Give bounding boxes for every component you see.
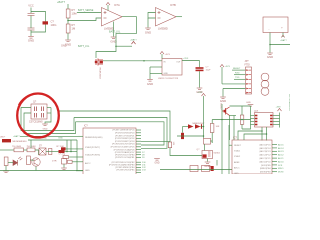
wire bottom rail left <box>0 170 33 172</box>
wire route line 1 lower <box>170 148 202 156</box>
wire drop A <box>66 140 68 152</box>
supply symbol +3V3 above IC3 <box>278 109 282 112</box>
svg-text:TXD: TXD <box>235 77 240 79</box>
wire IC4 gnd pin wire <box>76 170 83 172</box>
diode D1 MBR0520 <box>188 124 194 129</box>
resistor R9 vertical <box>168 142 171 148</box>
wire IC2 gnd drop <box>149 67 151 79</box>
svg-text:(PCINT20/XCK/T0)PD4: (PCINT20/XCK/T0)PD4 <box>112 144 135 146</box>
wire IC1B to gnd <box>147 18 149 28</box>
IC5 left pin names <box>234 145 242 175</box>
svg-text:CSTCE16M0: CSTCE16M0 <box>29 121 43 123</box>
wire switch row wire2 <box>65 151 78 153</box>
wire Q4 collector wire <box>230 105 251 107</box>
JP1 pin 2 <box>246 74 248 76</box>
svg-text:LM1117-3.3/SOT223: LM1117-3.3/SOT223 <box>158 78 179 80</box>
svg-text:GND: GND <box>164 73 169 75</box>
svg-text:GND: GND <box>61 44 67 47</box>
svg-text:IC?A: IC?A <box>114 3 120 7</box>
resistor R10 <box>240 115 244 124</box>
wire Q2 inner link <box>204 144 206 150</box>
MCU IC5 body <box>232 140 272 174</box>
wire switch row wire <box>46 151 59 153</box>
svg-text:DTR: DTR <box>52 161 57 163</box>
wire Y1 right pin wire <box>47 107 51 109</box>
IC5 right pin labels <box>278 143 284 177</box>
svg-text:GND: GND <box>28 39 34 43</box>
junction IC3 dot A <box>261 130 263 132</box>
svg-text:(MISO)PB4: (MISO)PB4 <box>260 168 271 170</box>
svg-text:GND: GND <box>85 170 90 172</box>
svg-text:100n: 100n <box>51 23 57 27</box>
switch S1 body <box>39 148 46 155</box>
svg-text:GND: GND <box>234 173 239 174</box>
wire right col drop <box>76 140 78 171</box>
wire drop B <box>70 140 72 152</box>
connector JP1 FTDI <box>246 67 252 94</box>
svg-text:GND: GND <box>43 128 48 130</box>
svg-text:+BATT: +BATT <box>130 38 137 41</box>
wire Q3 emitter drop <box>35 167 37 171</box>
svg-text:R?: R? <box>72 8 76 12</box>
svg-text:ADC4: ADC4 <box>278 147 284 150</box>
IC4 right pin stubs <box>136 130 141 173</box>
ground GND under C5 <box>61 168 67 170</box>
svg-text:AVCC: AVCC <box>234 166 240 169</box>
svg-text:GND: GND <box>154 163 159 165</box>
capacitor C5 <box>62 159 67 165</box>
capacitor C3 <box>196 67 204 69</box>
svg-text:XTAL2(PCINT7): XTAL2(PCINT7) <box>85 146 100 149</box>
svg-text:(ADC2)PC2: (ADC2)PC2 <box>260 154 272 157</box>
wire IC4 reset pin wire <box>78 135 83 137</box>
ground GND under Q2 <box>205 162 211 164</box>
resistor R3 <box>14 148 24 152</box>
svg-text:(PCINT17/TXD)PD1: (PCINT17/TXD)PD1 <box>115 135 135 137</box>
wire IC2 left stub2 <box>150 66 162 68</box>
wire divider mid wire <box>67 18 69 24</box>
svg-text:(ADC4)PC4: (ADC4)PC4 <box>260 147 272 150</box>
junction reg input tap <box>143 60 145 62</box>
svg-text:RXD: RXD <box>235 73 240 75</box>
J2 mark <box>211 166 214 171</box>
capacitor C2 body <box>43 21 49 24</box>
transistor Q4 <box>222 107 230 116</box>
wire C7 to avcc pin <box>72 161 83 163</box>
svg-text:+3V3: +3V3 <box>276 107 282 109</box>
fuse F1 body <box>2 139 11 142</box>
svg-text:(PCINT1/OC1A)PB1: (PCINT1/OC1A)PB1 <box>115 156 135 159</box>
svg-text:R?: R? <box>72 23 76 27</box>
wire Y1 gnd drop <box>45 108 51 124</box>
resistor R1 <box>66 9 70 18</box>
wire route line 2 <box>74 118 167 149</box>
wire diode feed <box>183 126 189 128</box>
svg-text:BC847: BC847 <box>220 104 222 111</box>
ground GND under IC2 <box>147 80 153 82</box>
supply symbol +BATT arrow <box>132 42 136 45</box>
wire bottom rail right <box>160 169 232 171</box>
wire Q3 base wire <box>31 159 35 161</box>
wire R10 bottom leg <box>241 124 243 129</box>
wire route line 1 branch <box>141 141 170 143</box>
svg-text:(ADC5)PC5: (ADC5)PC5 <box>260 143 272 146</box>
svg-text:IC?: IC? <box>233 136 238 139</box>
wire left long rail 222 <box>221 104 223 174</box>
IC3 right pin stubs <box>273 116 280 125</box>
svg-text:SCK: SCK <box>278 165 283 167</box>
wire led anode drop <box>8 162 13 164</box>
resonator Y1 plates <box>35 107 44 118</box>
svg-text:(PCINT23/AIN1)PD7: (PCINT23/AIN1)PD7 <box>115 151 136 154</box>
wire IC2 left stub3 <box>150 73 162 75</box>
svg-text:LED?: LED? <box>0 136 6 138</box>
junction row dot A <box>66 151 68 153</box>
wire FTDI GND wire <box>223 88 246 90</box>
ground GND under IC1A <box>111 37 117 39</box>
capacitor C4 <box>49 149 52 155</box>
IC5 right pin names <box>260 143 272 177</box>
supply symbol VCC arrow above IC2 <box>160 52 164 55</box>
svg-text:(PCINT3/OC2A/MOSI)PB3: (PCINT3/OC2A/MOSI)PB3 <box>109 164 135 167</box>
JP1 pin 6 <box>246 92 248 94</box>
svg-text:GND: GND <box>147 82 153 86</box>
ground GND under IC1B <box>145 28 151 30</box>
IC3 pin pads <box>255 115 273 126</box>
junction divider tap <box>67 20 69 22</box>
ground GND under C3 <box>197 88 203 90</box>
hole H1 <box>261 73 269 81</box>
hole H2 <box>261 80 269 88</box>
wire IC3 left pins rail <box>242 106 251 129</box>
svg-text:+BATT: +BATT <box>280 39 287 42</box>
supply symbol +3V3 arrow at JP1 <box>220 65 224 68</box>
wire C1 bottom leg <box>30 30 32 36</box>
wire R8 bottom leg <box>211 133 213 144</box>
wire FTDI RXD wire <box>234 74 246 76</box>
svg-text:MF-MSMF050: MF-MSMF050 <box>13 141 28 143</box>
LED D2 <box>13 157 22 166</box>
switch S1 cross <box>39 148 46 155</box>
svg-text:RESERVED(GND): RESERVED(GND) <box>85 137 103 139</box>
JP1 pin 5 <box>246 88 248 90</box>
svg-text:(SCK)PB5: (SCK)PB5 <box>261 165 271 167</box>
wire bottom rail mid <box>33 170 83 172</box>
junction row dot B <box>70 151 72 153</box>
wire Q2 drain link <box>211 141 213 143</box>
wire FTDI RESET wire <box>232 69 246 71</box>
wire C1 left leg <box>30 16 32 29</box>
wire IC1B tied inputs <box>148 13 156 19</box>
junction mid cross dot <box>203 135 205 137</box>
Q2 lower body <box>202 151 213 159</box>
svg-text:VCC: VCC <box>28 4 34 8</box>
svg-text:+3V3: +3V3 <box>197 92 203 94</box>
connector J2a <box>190 166 198 172</box>
svg-text:10uF: 10uF <box>206 70 212 72</box>
svg-text:(PCINT14/RESET)PC6: (PCINT14/RESET)PC6 <box>112 130 135 132</box>
wire IC2 top stub <box>161 54 163 59</box>
wire IC3 bottom pin A <box>261 127 263 141</box>
wire FTDI GND drop <box>222 89 224 97</box>
resistor R5 <box>4 157 8 166</box>
transistor Q1 <box>96 59 103 66</box>
svg-text:IC?B: IC?B <box>170 3 176 7</box>
wire IC5 left pin wire <box>229 144 232 146</box>
wire C3 top leg <box>199 61 201 68</box>
svg-text:BATT_LVL: BATT_LVL <box>109 30 121 33</box>
capacitor C6 body <box>61 147 66 150</box>
svg-text:+3V3: +3V3 <box>165 54 171 56</box>
svg-text:XTAL1: XTAL1 <box>234 150 241 153</box>
wire vertical rail 203 <box>203 96 205 138</box>
wire R8 top leg <box>211 120 213 124</box>
wire divider bottom wire <box>67 33 69 40</box>
resistor R8 <box>210 124 214 133</box>
wire IC3 bottom pin B <box>266 127 268 141</box>
svg-text:(ADC0)PC0: (ADC0)PC0 <box>260 160 272 163</box>
svg-text:ADC2: ADC2 <box>278 154 284 157</box>
wire Y1 pin2 route <box>24 113 76 134</box>
ground GND under divider <box>65 40 71 42</box>
voltage regulator IC2 <box>162 59 182 76</box>
junction gnd rail tap <box>269 44 271 46</box>
annotation circle highlight <box>17 94 59 138</box>
wire C3 bottom leg <box>199 71 201 87</box>
ground GND bottom-left <box>3 171 9 173</box>
svg-text:I2C BREAKOUT: I2C BREAKOUT <box>288 94 290 112</box>
svg-text:AREF: AREF <box>234 161 240 164</box>
wire C1 parallel loop <box>31 12 46 33</box>
wire led rail 2 <box>24 149 28 151</box>
wire route line 1 <box>58 111 171 142</box>
junction rail 222 dot <box>221 119 223 121</box>
svg-text:RESET: RESET <box>234 145 242 147</box>
wire C6 to xtal2 pin <box>66 148 83 150</box>
svg-text:MOSI: MOSI <box>278 172 284 174</box>
svg-text:XTAL2: XTAL2 <box>234 155 241 158</box>
IC4 right pin names <box>109 130 135 172</box>
junction IC3 dot B <box>266 133 268 135</box>
svg-text:1M: 1M <box>72 26 76 30</box>
svg-text:10K: 10K <box>216 126 220 128</box>
svg-text:BATT_SENSE: BATT_SENSE <box>78 9 94 12</box>
junction pullup rail dot <box>241 119 243 121</box>
svg-text:750 OHM: 750 OHM <box>12 146 21 148</box>
resistor R4 <box>27 148 35 152</box>
wire X1 plus pin stub <box>282 33 284 38</box>
wire IC3 right rail <box>279 113 281 128</box>
svg-text:+3V3: +3V3 <box>183 58 189 60</box>
wire Y1 pin1 route <box>21 108 74 131</box>
wire IC1B output stub <box>176 16 182 18</box>
svg-text:(PCINT19/INT1)PD3: (PCINT19/INT1)PD3 <box>115 141 135 143</box>
JP1 pin 3 <box>246 78 248 80</box>
ground GND in circle <box>42 124 48 126</box>
wire IC1A V- stub <box>113 22 115 37</box>
wire IC3 to IC5 drop A <box>238 131 262 140</box>
wire FTDI VCC wire <box>222 83 246 85</box>
JP1 pin 4 <box>246 83 248 85</box>
battery connector X1 <box>263 17 288 33</box>
wire X1 minus pin to gnd <box>269 33 271 53</box>
svg-text:LM358D: LM358D <box>158 27 168 31</box>
wire J2 drop <box>216 160 218 166</box>
ground GND under X1 <box>267 53 273 55</box>
svg-text:+BATT: +BATT <box>13 135 20 138</box>
svg-text:(PCINT5/SCK)PB5: (PCINT5/SCK)PB5 <box>116 170 135 172</box>
wire Q1 to regulator <box>103 60 162 62</box>
wire reset pullup rail <box>212 119 250 121</box>
wire R10 top leg <box>241 106 243 115</box>
wire R5 bottom <box>5 166 7 171</box>
svg-text:(PCINT21/OC0B/T1)PD5: (PCINT21/OC0B/T1)PD5 <box>111 147 136 149</box>
wire ref to opamp plus <box>77 12 101 14</box>
IC3 left pin stubs <box>251 116 255 125</box>
wire tap to opamp minus <box>68 18 101 21</box>
op-amp IC1B <box>156 8 177 27</box>
svg-text:AVCC: AVCC <box>85 162 91 165</box>
svg-text:BATT_LVL: BATT_LVL <box>78 45 90 48</box>
transistor Q3 <box>32 158 40 166</box>
capacitor C1 <box>28 14 35 31</box>
svg-text:-: - <box>269 27 270 31</box>
supply symbol V+ of IC1A <box>106 3 110 6</box>
ground GND under C1 <box>28 37 34 39</box>
svg-text:(ADC3)PC3: (ADC3)PC3 <box>260 150 272 153</box>
svg-text:(MOSI)PB3: (MOSI)PB3 <box>260 172 271 174</box>
svg-text:10M: 10M <box>72 11 77 15</box>
svg-text:GND: GND <box>58 138 63 140</box>
resistor R11 <box>63 156 69 159</box>
svg-text:ADC3: ADC3 <box>278 150 284 153</box>
wire IC3 to IC5 drop B <box>244 134 267 140</box>
resistor R6 <box>27 156 31 165</box>
svg-text:GND: GND <box>246 102 251 104</box>
wire R4 top drop <box>30 140 32 148</box>
svg-text:(PCINT18/INT0)PD2: (PCINT18/INT0)PD2 <box>115 138 135 140</box>
svg-text:ADC0: ADC0 <box>278 160 284 163</box>
wire IC4 reset run <box>20 135 78 137</box>
svg-text:FTDI: FTDI <box>245 64 251 67</box>
connector J2b <box>202 166 210 172</box>
resistor R7 body <box>59 150 65 153</box>
svg-text:IRLML6402: IRLML6402 <box>99 68 101 80</box>
svg-text:+BATT: +BATT <box>57 0 65 4</box>
wire Q4 drop A <box>229 116 231 141</box>
resistor R2 <box>66 24 70 33</box>
wire +BATT spur <box>116 45 132 47</box>
wire IC1A V+ stub <box>107 5 109 11</box>
wire Q2 source to gnd <box>207 159 209 162</box>
svg-text:ADC1: ADC1 <box>278 157 284 160</box>
svg-text:SI2302: SI2302 <box>214 153 221 155</box>
junction BATT_LVL / +BATT tap <box>115 45 117 47</box>
wire +3V3 arrow drop <box>221 67 223 84</box>
wire FTDI TXD wire <box>234 78 246 80</box>
wire IC5 left rail <box>228 125 230 174</box>
wire led rail <box>0 149 14 151</box>
supply symbol +3V3 arrow rail <box>202 94 206 97</box>
IC3 body <box>255 113 274 128</box>
resonator Y1 body <box>31 104 47 119</box>
IC4 left pin names <box>85 137 103 172</box>
ground GND sym near IC4 <box>154 159 160 161</box>
wire 3V3 output <box>182 60 200 62</box>
svg-text:(ADC1)PC1: (ADC1)PC1 <box>260 157 272 160</box>
ground GND above IC3 <box>248 105 254 107</box>
svg-text:XTAL1(PCINT6): XTAL1(PCINT6) <box>85 154 100 157</box>
svg-text:RESET: RESET <box>233 68 241 70</box>
IC5 right pin stubs <box>272 145 277 176</box>
svg-text:+3V3: +3V3 <box>225 66 231 68</box>
wire Q4 drop B <box>233 116 235 141</box>
svg-text:C? 22p: C? 22p <box>59 154 66 156</box>
wire divider top wire <box>67 4 69 9</box>
svg-text:(PCINT16/RXD)PD0: (PCINT16/RXD)PD0 <box>115 133 135 135</box>
MCU IC4 body <box>83 128 136 175</box>
wire gnd rail mid <box>28 139 77 141</box>
svg-text:GND: GND <box>220 99 226 103</box>
svg-text:GND: GND <box>267 55 273 59</box>
wire C5 gnd drop <box>63 164 65 168</box>
wire route line 3 <box>76 122 165 145</box>
wire BATT_LVL net <box>96 17 137 58</box>
svg-text:MISO: MISO <box>278 168 284 170</box>
wire VCC stub to C1 <box>30 8 32 14</box>
wire diode feed corner <box>182 127 184 133</box>
Q2 upper body <box>204 138 211 144</box>
svg-text:IC?: IC? <box>84 125 88 128</box>
svg-text:GND: GND <box>145 31 151 35</box>
svg-text:ADC5: ADC5 <box>278 143 284 146</box>
hole H3 <box>261 88 269 96</box>
ground GND at JP1 wire <box>220 97 226 99</box>
IC4 right pin labels <box>142 152 147 172</box>
wire Q4 emitter wire <box>230 115 237 117</box>
wire mid cross wire <box>177 135 204 137</box>
wire gnd rail to edge <box>270 44 290 46</box>
svg-text:R? 10K: R? 10K <box>57 146 65 148</box>
capacitor C7 <box>68 160 73 163</box>
junction diode out dot <box>203 126 205 128</box>
wire led rail 3 <box>35 150 39 155</box>
wire Y1 right pin wire2 <box>47 112 51 114</box>
wire diode out <box>201 126 204 128</box>
wire R11 to xtal1 pin <box>69 156 84 158</box>
op-amp IC1A <box>102 8 123 27</box>
diode D3 vertical <box>181 133 184 139</box>
JP1 pin 1 <box>246 69 248 71</box>
